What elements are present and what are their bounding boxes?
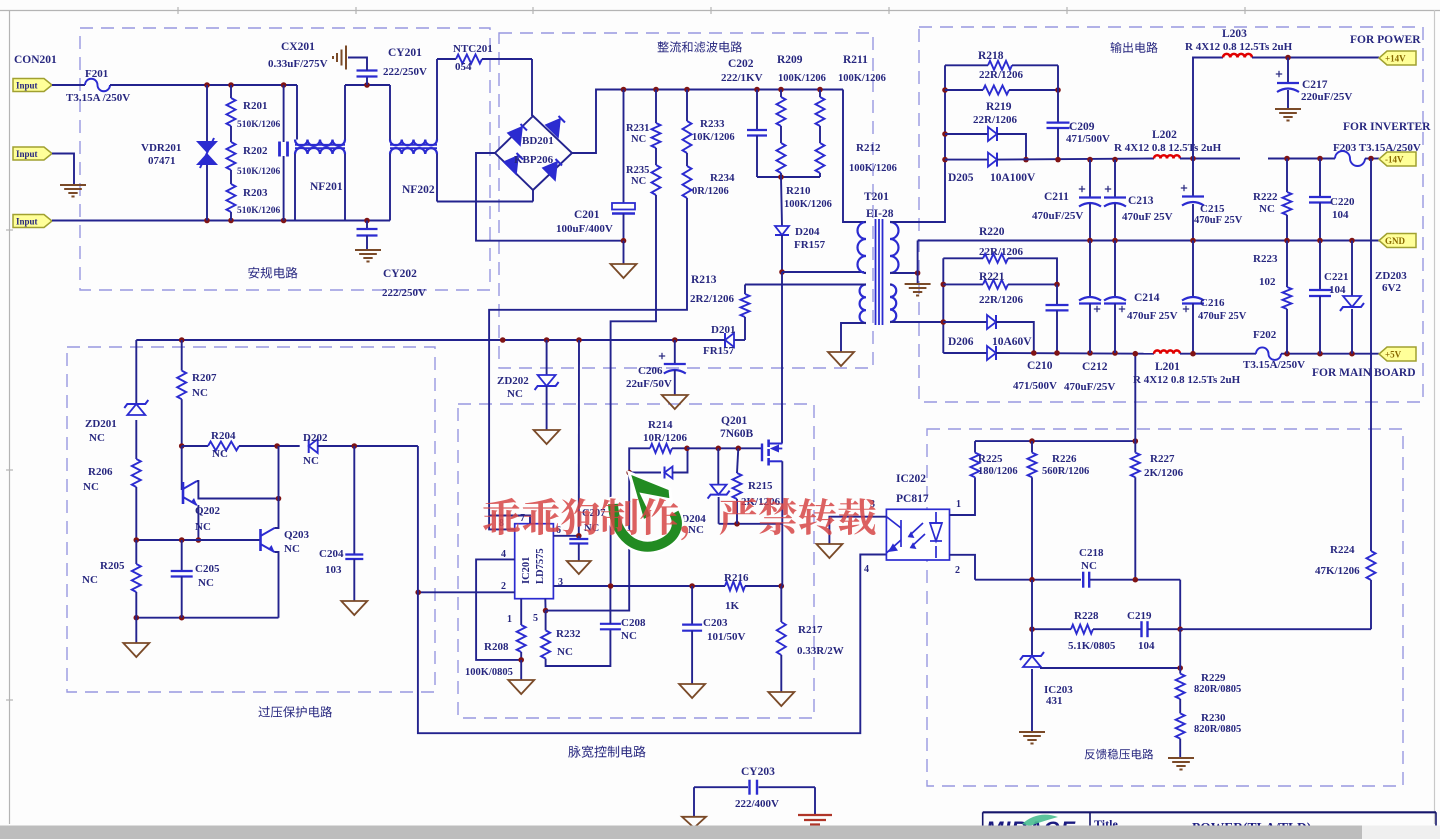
svg-text:10A60V: 10A60V	[992, 336, 1032, 348]
svg-text:22R/1206: 22R/1206	[979, 69, 1024, 81]
svg-text:NC: NC	[621, 630, 637, 642]
svg-text:Q201: Q201	[721, 415, 747, 427]
svg-text:C206: C206	[638, 365, 663, 377]
dashed box overvoltage protection circuit	[67, 347, 435, 692]
svg-text:820R/0805: 820R/0805	[1194, 684, 1241, 695]
wire pin6 stub	[553, 535, 578, 537]
capacitor C216	[1192, 241, 1194, 298]
capacitor CY202	[366, 221, 368, 230]
capacitor C210	[1056, 284, 1058, 305]
resistor R227	[1134, 441, 1136, 453]
svg-text:R223: R223	[1253, 253, 1278, 265]
node junction C211 bottom	[1087, 238, 1093, 244]
resistor R226	[1031, 441, 1033, 453]
node junction R207 top	[179, 337, 185, 343]
svg-text:R 4X12 0.8 12.5Ts 2uH: R 4X12 0.8 12.5Ts 2uH	[1133, 374, 1241, 386]
wire CT riser to GND rail	[917, 241, 919, 274]
wire feedback top rail	[975, 440, 1135, 442]
ground IC203	[1031, 669, 1033, 731]
resistor R215	[737, 448, 738, 473]
sheet border top	[0, 10, 1440, 12]
section label maikuan kongzhi dianlu	[568, 746, 645, 758]
resistor R218	[945, 64, 988, 66]
resistor R211	[819, 90, 821, 98]
svg-text:1: 1	[507, 614, 512, 625]
resistor R234	[683, 166, 692, 198]
svg-text:NC: NC	[192, 387, 208, 399]
svg-text:100K/1206: 100K/1206	[838, 73, 886, 84]
resistor R229	[1176, 674, 1185, 699]
node junction R215 bottom	[734, 521, 740, 527]
node junction R215 top	[736, 446, 742, 452]
section label shuchu dianlu	[1111, 42, 1158, 53]
node junction ZD202	[544, 337, 550, 343]
wire input1 to fuse	[52, 84, 85, 86]
svg-text:CY201: CY201	[388, 47, 422, 59]
sheet border right	[1434, 10, 1436, 824]
node junction ref	[1177, 665, 1183, 671]
svg-text:22R/1206: 22R/1206	[973, 114, 1018, 126]
capacitor C217	[1287, 58, 1289, 84]
svg-text:IC202: IC202	[896, 473, 926, 485]
wire aux bottom to ground	[841, 323, 864, 352]
resistor R201	[230, 85, 232, 98]
svg-text:R201: R201	[243, 100, 267, 112]
svg-text:L203: L203	[1222, 28, 1247, 40]
node junction R227 bottom	[1133, 577, 1139, 583]
svg-text:C208: C208	[621, 617, 646, 629]
node junction gate diode left	[626, 470, 632, 476]
wire opto pin3 to ground	[829, 517, 886, 544]
section label guoya baohu dianlu	[259, 706, 333, 717]
wire Q203 collector riser	[275, 446, 279, 528]
resistor R219	[945, 89, 983, 91]
svg-text:R221: R221	[979, 271, 1005, 283]
svg-text:R 4X12 0.8 12.5Ts 2uH: R 4X12 0.8 12.5Ts 2uH	[1114, 142, 1222, 154]
resistor R209	[780, 90, 782, 98]
svg-text:22R/1206: 22R/1206	[979, 294, 1024, 306]
wire C202 R209 R211 bottoms	[757, 176, 820, 178]
svg-text:T3.15A /250V: T3.15A /250V	[66, 92, 130, 104]
capacitor C205	[181, 540, 183, 571]
node junction D205a join	[1023, 157, 1029, 163]
wire gate drive loop	[546, 448, 650, 610]
svg-text:Q203: Q203	[284, 529, 310, 541]
wire snubber2 left riser	[942, 258, 944, 353]
svg-text:FR157: FR157	[794, 239, 826, 251]
wire R201-R202	[230, 126, 232, 142]
wire Q203 emitter down	[275, 552, 279, 618]
svg-text:470uF 25V: 470uF 25V	[1127, 310, 1178, 322]
node junction R216 right	[779, 583, 785, 589]
node junction pin6	[576, 533, 582, 539]
wire ref riser	[1179, 629, 1181, 673]
node junction C210 top	[1054, 282, 1060, 288]
svg-text:C210: C210	[1027, 360, 1053, 372]
IC203 431 shunt regulator	[1031, 580, 1033, 656]
capacitor C203	[691, 586, 693, 625]
wire pin7 stub	[489, 516, 530, 524]
node junction C214 bottom	[1112, 350, 1118, 356]
svg-text:NF201: NF201	[310, 181, 343, 193]
node junction VDR bottom	[204, 218, 210, 224]
svg-text:103: 103	[325, 564, 342, 576]
wire opto pin2	[950, 555, 976, 580]
svg-text:220uF/25V: 220uF/25V	[1301, 91, 1352, 103]
node junction L203 riser	[1190, 156, 1196, 162]
wire fuse to NF201	[110, 84, 297, 86]
svg-text:BD201: BD201	[522, 135, 554, 147]
resistor R232 pin5	[544, 599, 546, 611]
diode D206a	[943, 321, 987, 323]
optocoupler IC202 PC817	[886, 509, 949, 560]
wire bottom row ovp	[136, 617, 278, 619]
svg-text:CON201: CON201	[14, 54, 57, 66]
node junction R223 bottom	[1284, 351, 1290, 357]
node junction C215 bottom	[1190, 238, 1196, 244]
svg-text:222/1KV: 222/1KV	[721, 72, 763, 84]
capacitor C221	[1319, 241, 1321, 291]
diode D203 gate	[629, 472, 661, 474]
node junction D206a left	[941, 319, 947, 325]
section label zhengliu lvbo dianlu	[658, 41, 743, 52]
svg-text:R211: R211	[843, 54, 868, 66]
wire IC203 ref	[1040, 667, 1180, 669]
wire secondary top to D205	[892, 160, 945, 222]
svg-text:471/500V: 471/500V	[1066, 133, 1110, 145]
wire R231-R235	[655, 148, 657, 165]
resistor R235	[652, 165, 661, 195]
resistor R214	[650, 444, 672, 453]
svg-text:NC: NC	[1081, 560, 1097, 572]
wire opto pin1	[950, 477, 976, 515]
svg-text:100uF/400V: 100uF/400V	[556, 223, 613, 235]
svg-text:NC: NC	[195, 521, 211, 533]
fuse F203	[1335, 151, 1365, 166]
ground R217	[768, 692, 794, 706]
svg-text:FOR INVERTER: FOR INVERTER	[1343, 121, 1431, 133]
node Input 3	[13, 215, 52, 228]
resistor R213	[744, 285, 746, 295]
svg-text:NTC201: NTC201	[453, 43, 493, 55]
inductor NF202 common mode choke	[389, 85, 391, 140]
ground R230	[1179, 739, 1181, 757]
fuse F201	[85, 79, 110, 92]
resistor R228	[1071, 625, 1093, 634]
svg-text:FOR POWER: FOR POWER	[1350, 34, 1421, 46]
wire L201 to F202	[1180, 353, 1256, 355]
svg-text:R233: R233	[700, 118, 725, 130]
wire R228 C219 row	[1032, 628, 1071, 630]
wire fb row corner down	[1179, 580, 1181, 630]
dashed box safety circuit	[80, 28, 490, 290]
node junction D205 left	[942, 157, 948, 163]
svg-text:ZD202: ZD202	[497, 375, 529, 387]
svg-text:NC: NC	[83, 481, 99, 493]
node -14V flag	[1379, 152, 1416, 166]
watermark green arrow	[613, 504, 677, 547]
wire Q201 source down	[781, 461, 783, 586]
svg-text:471/500V: 471/500V	[1013, 380, 1057, 392]
inductor L201	[1154, 350, 1180, 353]
inductor L203	[1193, 58, 1223, 159]
svg-text:R226: R226	[1052, 453, 1077, 465]
svg-text:F202: F202	[1253, 329, 1277, 341]
svg-text:6V2: 6V2	[1382, 282, 1401, 294]
node junction D204 primary	[779, 269, 785, 275]
svg-text:104: 104	[1332, 209, 1349, 221]
resistor R224	[1370, 159, 1372, 552]
resistor R231	[655, 90, 657, 124]
resistor R217	[780, 586, 782, 622]
svg-text:T201: T201	[864, 191, 889, 203]
diode D205 10A100V	[945, 159, 988, 161]
svg-text:054: 054	[455, 61, 472, 73]
svg-text:100K/1206: 100K/1206	[778, 73, 826, 84]
node junction R203 bottom	[228, 218, 234, 224]
section label anquan dianlu	[248, 267, 297, 279]
wire R229-R230	[1179, 699, 1181, 713]
node junction D204 top	[778, 174, 784, 180]
svg-text:2K/1206: 2K/1206	[1144, 467, 1184, 479]
node junction VDR top	[204, 82, 210, 88]
svg-text:470uF/25V: 470uF/25V	[1032, 210, 1083, 222]
wire F202 to flag	[1281, 353, 1379, 355]
node junction C205 top	[179, 537, 185, 543]
svg-text:470uF/25V: 470uF/25V	[1064, 381, 1115, 393]
capacitor C208	[600, 623, 621, 625]
svg-text:NC: NC	[631, 176, 646, 187]
svg-text:R235: R235	[626, 165, 649, 176]
svg-text:EI-28: EI-28	[866, 208, 894, 220]
svg-text:R 4X12 0.8 12.5Ts 2uH: R 4X12 0.8 12.5Ts 2uH	[1185, 41, 1293, 53]
node junction R223 top	[1284, 238, 1290, 244]
wire GND rail	[918, 240, 1379, 242]
node junction C204 top	[352, 443, 358, 449]
svg-text:510K/1206: 510K/1206	[237, 206, 281, 216]
wire R203 to bottom rail	[230, 212, 232, 221]
svg-text:R202: R202	[243, 145, 268, 157]
wire plus5 rail	[996, 352, 1154, 355]
svg-text:Input: Input	[16, 217, 38, 227]
node junction diode1 left	[942, 131, 948, 137]
inductor L202	[1154, 155, 1180, 158]
node junction R226 top	[1029, 438, 1035, 444]
resistor R208 pin1	[520, 599, 522, 625]
node +5V flag	[1379, 347, 1416, 361]
wire R202-R203	[230, 170, 232, 184]
node junction C221 top	[1317, 238, 1323, 244]
wire ovp to pin2 and opto	[418, 446, 887, 733]
node junction C213 bottom	[1112, 238, 1118, 244]
node junction R219 left	[942, 87, 948, 93]
capacitor C215	[1192, 159, 1194, 197]
wire Q202 collector	[197, 481, 279, 499]
wire R209-R210	[780, 126, 782, 143]
resistor R221	[943, 283, 983, 285]
svg-text:CX201: CX201	[281, 41, 315, 53]
thermistor NTC201	[437, 58, 456, 60]
varistor VDR201	[206, 85, 208, 141]
node junction R233 top	[684, 87, 690, 93]
node junction C212 bottom	[1087, 350, 1093, 356]
svg-text:R228: R228	[1074, 610, 1099, 622]
wire R234 down to pin8 line	[489, 198, 687, 529]
resistor R206	[132, 459, 141, 487]
svg-text:222/250V: 222/250V	[383, 66, 427, 78]
wire fb row C218	[975, 579, 1081, 581]
svg-text:R203: R203	[243, 187, 268, 199]
node junction C211 top	[1087, 157, 1093, 163]
capacitor CY201	[366, 77, 368, 86]
svg-text:C212: C212	[1082, 361, 1108, 373]
svg-text:2: 2	[955, 565, 960, 576]
node junction C201 top	[621, 87, 627, 93]
resistor R222	[1286, 159, 1288, 193]
node Input 1	[13, 79, 52, 92]
svg-text:2R2/1206: 2R2/1206	[690, 293, 735, 305]
svg-text:NC: NC	[284, 543, 300, 555]
node junction R211 top	[817, 87, 823, 93]
gray bottom bar	[0, 826, 1362, 839]
capacitor C212	[1089, 241, 1091, 298]
node junction R205 bottom	[134, 615, 140, 621]
transistor Q202	[181, 446, 183, 490]
ground C206	[662, 395, 688, 409]
capacitor C211	[1089, 160, 1091, 198]
diode D201 FR157	[734, 339, 745, 341]
ground input2 earth	[60, 184, 86, 186]
capacitor C206	[674, 340, 676, 364]
resistor R202	[227, 142, 236, 170]
svg-text:0.33R/2W: 0.33R/2W	[797, 645, 844, 657]
capacitor C214	[1114, 241, 1116, 298]
ground CY202 earth	[355, 249, 381, 251]
svg-text:F201: F201	[85, 68, 108, 80]
svg-text:C204: C204	[319, 548, 344, 560]
svg-text:0R/1206: 0R/1206	[692, 186, 729, 197]
wire pin3 net	[553, 585, 725, 587]
ground opto pin3	[816, 544, 842, 558]
IC U201 LD7575 box	[515, 524, 554, 599]
svg-text:-14V: -14V	[1385, 155, 1404, 165]
wire NTC to bridge top	[531, 59, 533, 116]
diode D204 FR157	[781, 177, 782, 226]
svg-text:4: 4	[864, 564, 869, 575]
svg-text:+5V: +5V	[1385, 350, 1402, 360]
resistor R210	[777, 143, 786, 173]
ground R205	[135, 618, 137, 643]
fuse F202	[1256, 347, 1281, 360]
wire R211-R212	[819, 126, 821, 143]
svg-text:560R/1206: 560R/1206	[1042, 466, 1089, 477]
wire minus14 rail	[997, 159, 1154, 160]
node junction R208 bottom	[518, 657, 524, 663]
svg-text:R205: R205	[100, 560, 125, 572]
resistor R216	[725, 582, 745, 591]
svg-text:R232: R232	[556, 628, 581, 640]
resistor R212	[816, 143, 825, 173]
svg-text:D204: D204	[795, 226, 820, 238]
node junction C210 bottom	[1054, 350, 1060, 356]
wire pin4 loop	[476, 559, 521, 660]
node junction C201 bottom	[621, 238, 627, 244]
node junction C217 top	[1285, 55, 1291, 61]
svg-text:C219: C219	[1127, 610, 1152, 622]
node junction x503	[500, 337, 506, 343]
transformer aux winding	[860, 285, 866, 324]
node junction C220 top	[1317, 156, 1323, 162]
node junction CT	[915, 270, 921, 276]
svg-text:431: 431	[1046, 695, 1063, 707]
svg-text:C221: C221	[1324, 271, 1348, 283]
svg-text:D205: D205	[948, 172, 974, 184]
node junction R221 left	[941, 282, 947, 288]
wire fb to R224	[1180, 628, 1371, 630]
svg-text:C213: C213	[1128, 195, 1154, 207]
zener diode ZD202	[546, 340, 548, 375]
svg-text:R206: R206	[88, 466, 113, 478]
wire L202 to F203	[1180, 158, 1240, 160]
resistor R207	[181, 340, 183, 371]
svg-text:C214: C214	[1134, 292, 1160, 304]
svg-text:NC: NC	[303, 455, 319, 467]
wire Q202 emitter down	[197, 505, 199, 540]
node Input 2	[13, 147, 52, 160]
resistor R233	[686, 90, 688, 122]
node junction CY202	[364, 218, 370, 224]
svg-text:Input: Input	[16, 149, 38, 159]
svg-text:R217: R217	[798, 624, 823, 636]
inductor NF201 common mode choke	[296, 85, 298, 140]
svg-text:Input: Input	[16, 81, 38, 91]
ground ZD202	[534, 430, 560, 444]
svg-text:R210: R210	[786, 185, 811, 197]
svg-text:180/1206: 180/1206	[978, 466, 1018, 477]
svg-text:CY202: CY202	[383, 268, 417, 280]
node junction R224 top	[1368, 156, 1374, 162]
svg-text:ZD203: ZD203	[1375, 270, 1407, 282]
node junction ZD203 bottom	[1349, 351, 1355, 357]
svg-text:L201: L201	[1155, 361, 1180, 373]
capacitor CX201	[283, 85, 285, 142]
svg-text:+14V: +14V	[1385, 54, 1406, 64]
ground CY203 right earth	[814, 787, 816, 814]
wire input2 to ground	[52, 154, 74, 185]
node junction pin6 line	[576, 337, 582, 343]
node junction R226 bottom	[1029, 577, 1035, 583]
sheet border left	[9, 10, 11, 824]
svg-text:C216: C216	[1200, 297, 1225, 309]
svg-text:10K/1206: 10K/1206	[692, 132, 735, 143]
svg-text:R215: R215	[748, 480, 773, 492]
resistor R203	[227, 184, 236, 212]
svg-text:R234: R234	[710, 172, 735, 184]
svg-text:PC817: PC817	[896, 493, 929, 505]
ground C207	[567, 561, 591, 574]
capacitor C220	[1319, 159, 1321, 198]
node junction R222 top	[1284, 156, 1290, 162]
diode D206 10A60V	[943, 352, 987, 354]
node junction D206a join	[1031, 350, 1037, 356]
capacitor C218	[1082, 572, 1084, 588]
svg-text:R207: R207	[192, 372, 217, 384]
ground CY201 earth left	[345, 46, 347, 70]
svg-text:NF202: NF202	[402, 184, 435, 196]
svg-text:1K: 1K	[725, 600, 740, 612]
wire NF201 to CY201 junction top	[345, 84, 390, 86]
svg-text:GND: GND	[1385, 236, 1406, 246]
